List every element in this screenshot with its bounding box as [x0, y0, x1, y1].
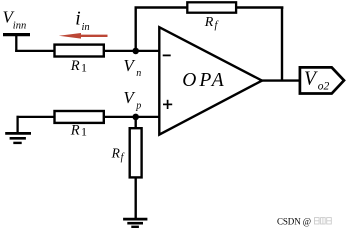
resistor R1 bottom label: [70, 123, 87, 139]
wire node Vp down to Rf: [134, 117, 136, 128]
svg-text:R: R: [111, 146, 121, 161]
terminal Vinn label: [3, 7, 27, 31]
resistor R1 bottom body: [55, 111, 104, 123]
current arrow i_in: [59, 33, 108, 39]
svg-text:n: n: [136, 68, 141, 79]
ground bottom symbol: [123, 219, 147, 227]
svg-text:1: 1: [81, 125, 87, 139]
node Vp dot: [132, 114, 139, 121]
resistor Rf feedback body: [187, 2, 236, 12]
node Vp label: [123, 88, 141, 112]
ground left wire down: [16, 116, 18, 133]
svg-text:in: in: [82, 22, 90, 33]
terminal Vo2 label: [304, 69, 330, 93]
terminal Vo2 flag: [300, 67, 344, 93]
svg-text:inn: inn: [13, 21, 26, 32]
svg-text:R: R: [70, 58, 80, 74]
current arrow i_in label: [75, 9, 89, 34]
svg-text:p: p: [135, 101, 141, 112]
wire Vinn to R1: [15, 50, 54, 52]
wire R1 bottom to node Vp: [104, 116, 159, 118]
svg-text:R: R: [70, 123, 80, 139]
node Vn dot: [132, 48, 139, 55]
svg-text:i: i: [75, 9, 80, 30]
resistor Rf feedback label: [204, 15, 220, 31]
wire feedback right vertical: [281, 8, 283, 81]
svg-text:OPA: OPA: [182, 70, 226, 91]
node Vn label: [123, 56, 141, 79]
op-amp minus input marker: [163, 54, 171, 56]
wire feedback top left: [135, 6, 188, 8]
resistor R1 top body: [55, 45, 104, 57]
op-amp plus input marker: [163, 100, 172, 109]
resistor Rf vertical label: [111, 146, 125, 164]
svg-text:V: V: [304, 69, 318, 90]
svg-text:1: 1: [81, 60, 87, 74]
terminal Vinn bar: [3, 33, 30, 36]
svg-text:CSDN @: CSDN @: [277, 216, 311, 226]
wire from Vinn down: [15, 35, 17, 52]
wire R1 to node Vn: [104, 50, 159, 52]
svg-text:o2: o2: [318, 81, 330, 93]
watermark CSDN: [277, 216, 331, 226]
ground left symbol: [5, 133, 31, 143]
resistor R1 top label: [70, 58, 87, 74]
wire Rf vertical to ground: [134, 177, 136, 219]
svg-text:R: R: [204, 15, 214, 30]
wire Rf to right vertical: [236, 6, 283, 8]
resistor Rf vertical body: [130, 128, 142, 177]
wire op-amp output: [262, 79, 301, 81]
wire feedback left vertical: [134, 8, 136, 51]
wire ground to R1 bottom: [17, 116, 55, 118]
op-amp OPA body: [159, 27, 262, 134]
